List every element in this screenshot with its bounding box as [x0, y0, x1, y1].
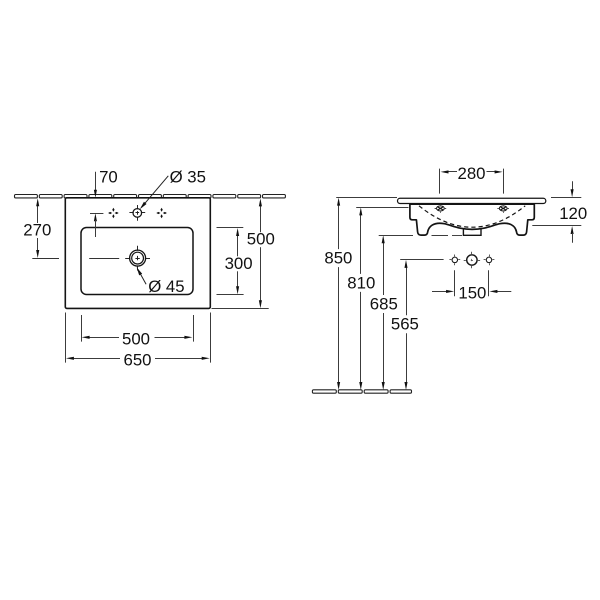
svg-text:810: 810 [347, 273, 375, 292]
svg-text:270: 270 [23, 221, 51, 240]
svg-text:Ø 45: Ø 45 [148, 277, 184, 296]
svg-text:Ø 35: Ø 35 [170, 167, 206, 186]
svg-text:280: 280 [458, 164, 486, 183]
svg-text:565: 565 [391, 315, 419, 334]
svg-text:650: 650 [124, 351, 152, 370]
svg-text:685: 685 [370, 295, 398, 314]
svg-text:500: 500 [122, 330, 150, 349]
svg-text:120: 120 [559, 204, 587, 223]
svg-text:300: 300 [225, 254, 253, 273]
svg-text:150: 150 [458, 284, 486, 303]
svg-text:850: 850 [324, 249, 352, 268]
svg-text:70: 70 [99, 168, 118, 187]
svg-text:500: 500 [247, 230, 275, 249]
